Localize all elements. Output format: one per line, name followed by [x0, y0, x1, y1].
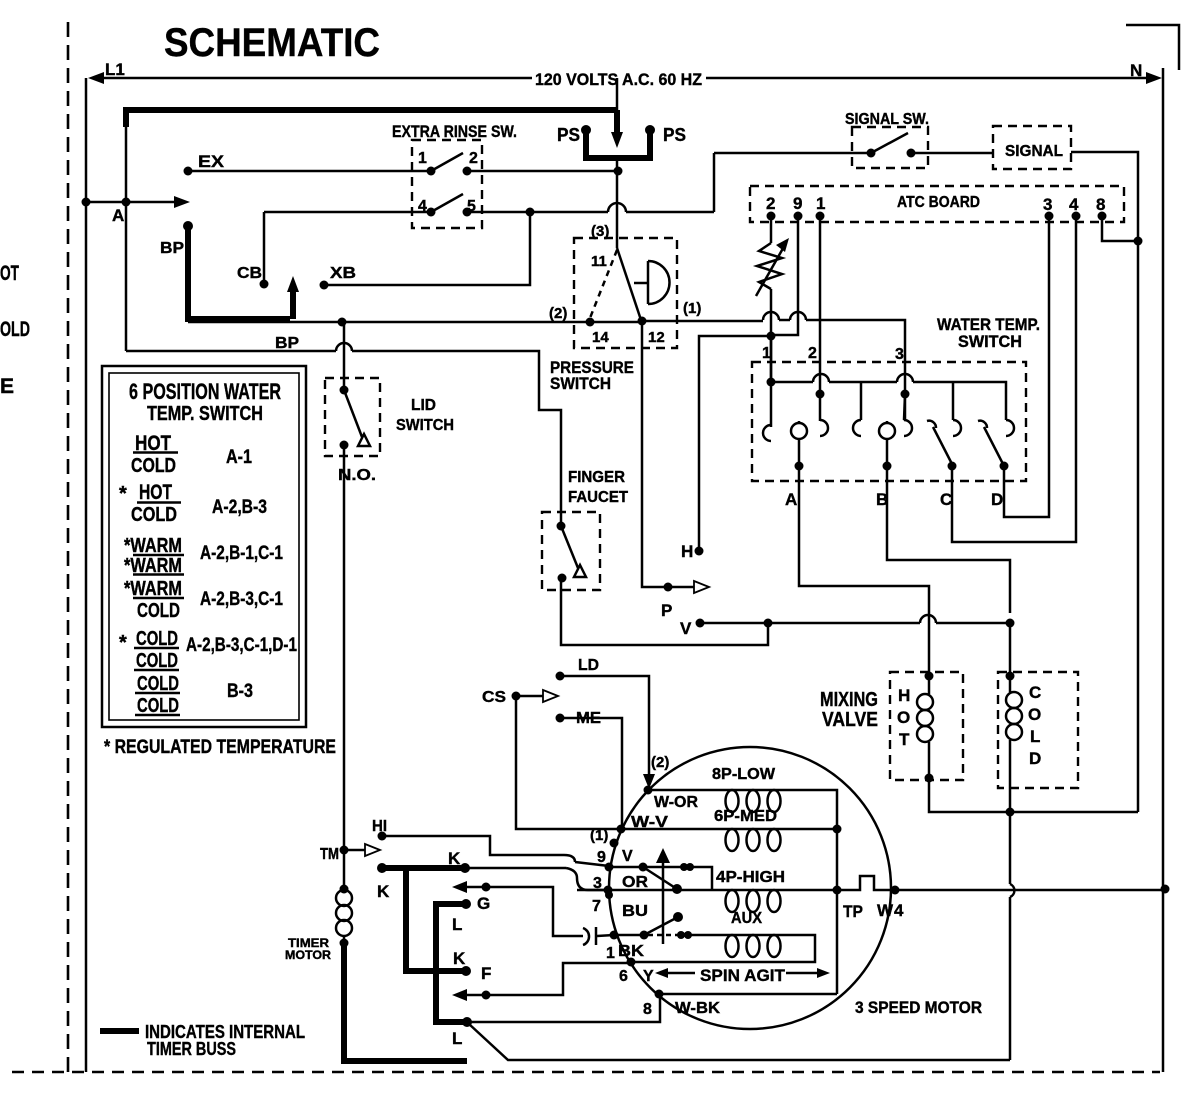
svg-text:PS: PS	[663, 125, 686, 145]
svg-text:O: O	[1028, 705, 1041, 724]
svg-text:1: 1	[762, 345, 771, 362]
svg-text:2: 2	[766, 194, 775, 213]
svg-text:3: 3	[895, 346, 904, 363]
svg-text:COLD: COLD	[136, 628, 178, 650]
svg-text:8P-LOW: 8P-LOW	[712, 766, 776, 783]
svg-text:SIGNAL: SIGNAL	[1005, 143, 1063, 160]
svg-text:K: K	[453, 949, 466, 968]
svg-text:EXTRA RINSE SW.: EXTRA RINSE SW.	[392, 122, 517, 141]
svg-text:COLD: COLD	[137, 673, 179, 695]
svg-text:CS: CS	[482, 689, 506, 706]
svg-text:11: 11	[591, 253, 607, 270]
svg-text:O: O	[897, 708, 910, 727]
svg-text:*WARM: *WARM	[124, 535, 182, 557]
svg-text:*: *	[119, 632, 127, 654]
svg-text:6 POSITION WATER: 6 POSITION WATER	[129, 379, 281, 404]
svg-text:SWITCH: SWITCH	[396, 417, 454, 434]
svg-text:*WARM: *WARM	[124, 578, 182, 600]
svg-text:LID: LID	[411, 397, 436, 414]
svg-text:L: L	[1030, 727, 1040, 746]
svg-text:N.O.: N.O.	[338, 467, 376, 484]
svg-text:MOTOR: MOTOR	[285, 948, 331, 962]
svg-text:FAUCET: FAUCET	[568, 489, 628, 506]
svg-text:TP: TP	[843, 902, 863, 921]
svg-text:V: V	[622, 848, 633, 865]
svg-text:D: D	[1029, 749, 1041, 768]
svg-text:EX: EX	[198, 152, 225, 171]
svg-text:A: A	[112, 206, 124, 225]
svg-text:H: H	[681, 542, 693, 561]
svg-text:H: H	[898, 686, 910, 705]
svg-text:HOT: HOT	[139, 481, 172, 504]
svg-text:T: T	[899, 730, 910, 749]
svg-text:SIGNAL SW.: SIGNAL SW.	[845, 111, 929, 128]
svg-text:SPIN AGIT: SPIN AGIT	[700, 966, 786, 985]
svg-text:L: L	[452, 915, 462, 934]
svg-text:C: C	[940, 490, 952, 509]
svg-text:A-2,B-3: A-2,B-3	[212, 497, 267, 518]
svg-text:W: W	[877, 901, 894, 920]
svg-text:* REGULATED TEMPERATURE: * REGULATED TEMPERATURE	[104, 737, 336, 758]
svg-text:2: 2	[469, 150, 478, 167]
svg-text:COLD: COLD	[131, 504, 177, 526]
svg-text:V: V	[680, 619, 692, 638]
svg-text:A-2,B-3,C-1,D-1: A-2,B-3,C-1,D-1	[186, 635, 297, 656]
svg-text:TIMER BUSS: TIMER BUSS	[147, 1039, 236, 1059]
svg-text:L1: L1	[105, 60, 125, 79]
svg-text:E: E	[0, 375, 14, 398]
svg-text:(2): (2)	[651, 754, 669, 771]
svg-text:(1): (1)	[590, 827, 608, 844]
svg-text:ATC BOARD: ATC BOARD	[897, 194, 980, 211]
svg-text:1: 1	[816, 194, 825, 213]
svg-text:BK: BK	[618, 943, 645, 960]
svg-text:3: 3	[1043, 195, 1052, 214]
svg-text:1: 1	[606, 945, 615, 962]
svg-text:W-OR: W-OR	[654, 794, 698, 811]
svg-text:A-2,B-3,C-1: A-2,B-3,C-1	[200, 589, 283, 610]
svg-text:12: 12	[648, 329, 665, 346]
svg-text:COLD: COLD	[136, 650, 178, 672]
svg-text:K: K	[377, 882, 390, 901]
svg-text:(3): (3)	[591, 223, 609, 240]
svg-text:B-3: B-3	[227, 681, 253, 702]
svg-text:(1): (1)	[683, 300, 701, 317]
svg-text:PS: PS	[557, 125, 580, 145]
svg-text:BP: BP	[275, 335, 299, 352]
svg-text:TEMP. SWITCH: TEMP. SWITCH	[147, 403, 263, 425]
svg-text:4P-HIGH: 4P-HIGH	[716, 869, 785, 886]
svg-text:F: F	[481, 964, 491, 983]
svg-text:AUX: AUX	[731, 910, 762, 927]
svg-text:120 VOLTS A.C. 60 HZ: 120 VOLTS A.C. 60 HZ	[535, 70, 702, 89]
svg-text:1: 1	[418, 150, 427, 167]
svg-text:14: 14	[592, 329, 609, 346]
svg-text:P: P	[661, 601, 672, 620]
svg-text:A: A	[785, 490, 797, 509]
svg-text:8: 8	[1096, 195, 1105, 214]
svg-text:N: N	[1130, 61, 1142, 80]
svg-text:FINGER: FINGER	[568, 469, 625, 486]
svg-text:LD: LD	[578, 657, 599, 674]
svg-text:A-2,B-1,C-1: A-2,B-1,C-1	[200, 543, 283, 564]
svg-text:XB: XB	[330, 265, 356, 282]
svg-text:D: D	[991, 490, 1003, 509]
svg-text:G: G	[477, 894, 490, 913]
svg-text:*: *	[119, 483, 127, 505]
svg-text:BU: BU	[622, 903, 648, 920]
svg-text:L: L	[452, 1029, 462, 1048]
svg-text:4: 4	[1069, 195, 1079, 214]
svg-text:OLD: OLD	[0, 318, 30, 341]
svg-text:MIXING: MIXING	[820, 689, 878, 711]
svg-text:SCHEMATIC: SCHEMATIC	[164, 21, 380, 65]
svg-text:W-BK: W-BK	[675, 1000, 720, 1017]
svg-text:COLD: COLD	[131, 455, 176, 477]
svg-text:Y: Y	[643, 968, 654, 985]
svg-text:A-1: A-1	[226, 447, 252, 468]
svg-text:COLD: COLD	[137, 695, 179, 717]
svg-text:3 SPEED MOTOR: 3 SPEED MOTOR	[855, 998, 982, 1017]
svg-text:K: K	[448, 849, 461, 868]
svg-text:6: 6	[619, 968, 628, 985]
svg-text:2: 2	[808, 345, 817, 362]
svg-text:CB: CB	[237, 265, 262, 282]
svg-text:9: 9	[793, 194, 802, 213]
svg-text:OT: OT	[0, 262, 19, 285]
svg-text:TM: TM	[320, 846, 339, 863]
svg-text:4: 4	[894, 901, 904, 920]
svg-text:C: C	[1029, 683, 1041, 702]
svg-text:SWITCH: SWITCH	[958, 332, 1022, 351]
svg-text:SWITCH: SWITCH	[550, 374, 611, 393]
svg-text:7: 7	[592, 898, 601, 915]
svg-text:8: 8	[643, 1001, 652, 1018]
svg-text:9: 9	[597, 849, 606, 866]
svg-text:OR: OR	[622, 874, 648, 891]
svg-text:6P-MED: 6P-MED	[714, 808, 777, 825]
svg-text:BP: BP	[160, 240, 184, 257]
svg-text:4: 4	[418, 198, 427, 215]
svg-text:COLD: COLD	[137, 600, 180, 622]
svg-text:VALVE: VALVE	[822, 709, 878, 731]
svg-text:(2): (2)	[549, 305, 567, 322]
